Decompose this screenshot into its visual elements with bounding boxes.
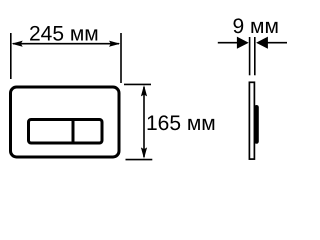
width arrow right <box>109 41 120 47</box>
thickness extension line left <box>249 37 251 75</box>
side profile outline <box>249 82 254 159</box>
height extension line bottom <box>126 159 153 161</box>
width arrow left <box>12 41 23 47</box>
thickness dim line left tail <box>218 42 240 44</box>
flush plate front view outline <box>11 87 120 157</box>
side profile button bump <box>254 105 259 144</box>
svg-text:245 мм: 245 мм <box>29 23 99 46</box>
height dimension line <box>143 87 145 157</box>
button frame <box>29 120 103 144</box>
svg-text:165 мм: 165 мм <box>146 112 216 135</box>
thickness extension line right <box>254 37 256 75</box>
height extension line top <box>124 83 151 85</box>
thickness arrow left <box>237 37 249 49</box>
thickness arrow right <box>256 37 268 49</box>
width dimension line <box>13 43 119 45</box>
thickness dim line right tail <box>264 42 287 44</box>
height arrow bottom <box>141 147 147 158</box>
width extension line right <box>120 33 122 83</box>
height arrow top <box>141 85 147 96</box>
button divider <box>72 120 75 144</box>
svg-text:9 мм: 9 мм <box>233 15 279 38</box>
width extension line left <box>10 33 12 79</box>
